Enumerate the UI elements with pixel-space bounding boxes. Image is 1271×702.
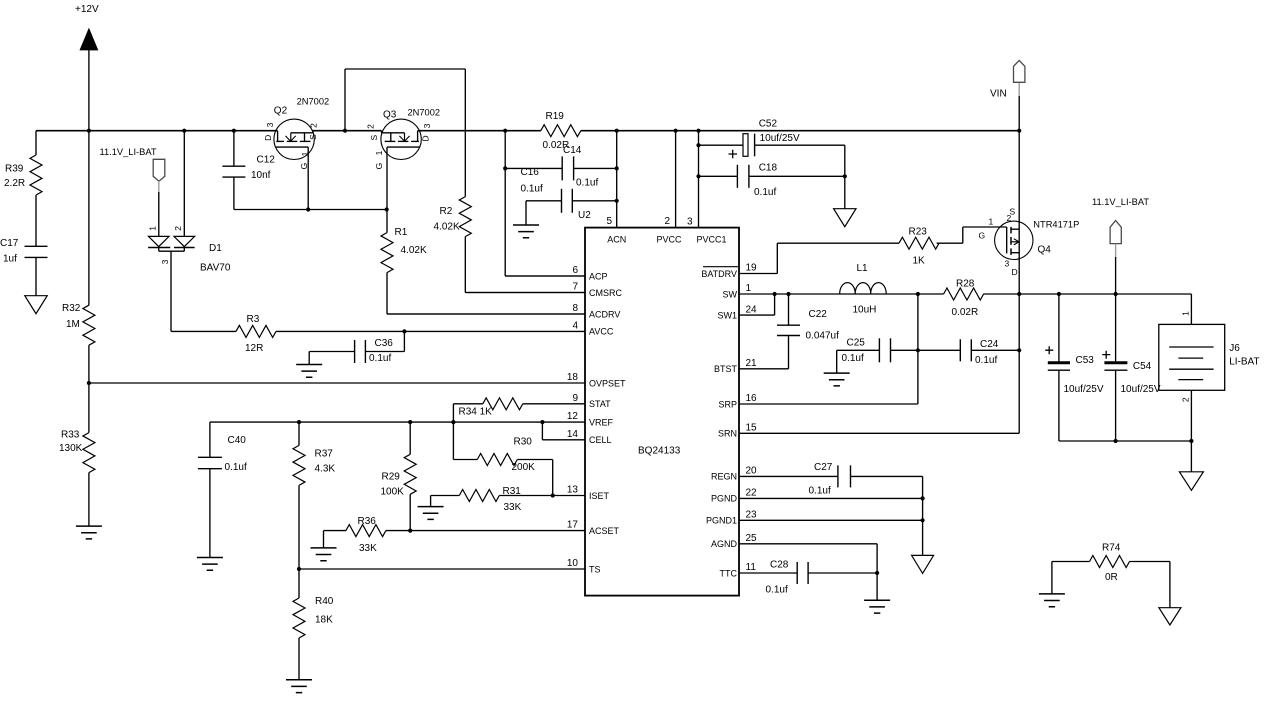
svg-text:C14: C14 bbox=[563, 145, 582, 156]
pin 2 PVCC bbox=[675, 131, 677, 228]
svg-text:2.2R: 2.2R bbox=[4, 178, 25, 189]
ground triangle J6 bbox=[1179, 472, 1203, 491]
diode D1 BAV70 bbox=[149, 236, 170, 246]
svg-text:ACSET: ACSET bbox=[589, 526, 620, 536]
wire bus R19 to VIN node bbox=[581, 130, 1019, 132]
svg-text:R2: R2 bbox=[440, 206, 453, 217]
resistor R33 130K bbox=[88, 383, 90, 433]
svg-text:1: 1 bbox=[148, 226, 158, 231]
wire R74 right to ground bbox=[1169, 562, 1171, 608]
pin 4 AVCC bbox=[584, 330, 586, 332]
svg-text:TTC: TTC bbox=[720, 568, 738, 578]
junction D1 pin2/bus bbox=[182, 129, 186, 133]
capacitor C17 1uf bbox=[25, 245, 48, 247]
wire C12 bottom to gates bbox=[234, 209, 387, 211]
svg-text:C24: C24 bbox=[980, 339, 999, 350]
svg-text:3: 3 bbox=[687, 217, 693, 228]
svg-text:R36: R36 bbox=[358, 516, 377, 527]
wire battery ground bus bbox=[1059, 440, 1192, 442]
pin 19 BATDRV bbox=[739, 273, 777, 275]
svg-text:NTR4171P: NTR4171P bbox=[1033, 220, 1079, 230]
ground triangle C52/C18 bbox=[834, 209, 856, 227]
svg-text:R39: R39 bbox=[5, 164, 24, 175]
svg-text:PGND1: PGND1 bbox=[706, 516, 737, 526]
svg-text:4.02K: 4.02K bbox=[434, 222, 460, 233]
junction TS/R37-R40 bbox=[297, 567, 301, 571]
pin 16 SRP bbox=[739, 403, 918, 405]
svg-text:14: 14 bbox=[567, 429, 579, 440]
transistor Q4 NTR4171P bbox=[995, 221, 1033, 259]
capacitor C25 0.1uf bbox=[837, 349, 880, 351]
wire R23 lead bbox=[777, 242, 899, 244]
svg-text:0.1uf: 0.1uf bbox=[369, 353, 391, 364]
svg-text:2: 2 bbox=[664, 216, 670, 227]
wire BATDRV riser bbox=[776, 243, 778, 273]
svg-text:PGND: PGND bbox=[711, 494, 738, 504]
svg-text:1M: 1M bbox=[66, 319, 80, 330]
junction bus/C14 branch bbox=[503, 129, 507, 133]
svg-text:5: 5 bbox=[606, 216, 612, 227]
junction AGND/C28 bbox=[875, 571, 879, 575]
wire AVCC line R3 to U2 bbox=[276, 330, 585, 332]
svg-text:11.1V_LI-BAT: 11.1V_LI-BAT bbox=[100, 147, 157, 157]
wire connector to C54 bbox=[1115, 244, 1117, 258]
svg-text:REGN: REGN bbox=[711, 472, 737, 482]
svg-text:0.1uf: 0.1uf bbox=[521, 184, 543, 195]
svg-text:12: 12 bbox=[567, 411, 579, 422]
svg-text:11: 11 bbox=[746, 562, 757, 573]
capacitor C28 0.1uf bbox=[796, 562, 798, 584]
svg-text:BQ24133: BQ24133 bbox=[638, 446, 681, 457]
ground below C40 bbox=[197, 558, 223, 571]
svg-text:4.3K: 4.3K bbox=[315, 464, 336, 475]
svg-text:C22: C22 bbox=[809, 309, 828, 320]
svg-text:0.047uf: 0.047uf bbox=[806, 331, 840, 342]
svg-text:10uf/25V: 10uf/25V bbox=[1064, 384, 1104, 395]
svg-text:D: D bbox=[1012, 267, 1018, 277]
svg-text:6: 6 bbox=[572, 265, 578, 276]
svg-text:VIN: VIN bbox=[990, 89, 1007, 100]
svg-text:R23: R23 bbox=[909, 227, 928, 238]
svg-text:20: 20 bbox=[746, 466, 758, 477]
svg-text:R40: R40 bbox=[315, 596, 334, 607]
svg-text:R30: R30 bbox=[514, 437, 533, 448]
svg-text:8: 8 bbox=[572, 303, 578, 314]
capacitor C54 10uf/25V bbox=[1104, 361, 1127, 364]
ground below C17 bbox=[25, 296, 47, 314]
pin 20 REGN bbox=[739, 475, 838, 477]
svg-text:33K: 33K bbox=[504, 502, 522, 513]
ground below R40 bbox=[286, 680, 312, 693]
pin 9 STAT bbox=[584, 403, 586, 405]
svg-text:11.1V_LI-BAT: 11.1V_LI-BAT bbox=[1092, 197, 1149, 207]
junction C14 right bbox=[615, 166, 619, 170]
pin 11 TTC bbox=[739, 572, 797, 574]
ground below R33 bbox=[76, 526, 102, 539]
wire +12V vertical to R32 bbox=[88, 50, 90, 305]
svg-text:R19: R19 bbox=[546, 111, 565, 122]
junction VREF/R34-R30 bbox=[451, 420, 455, 424]
junction VREF/CELL bbox=[540, 420, 544, 424]
wire top loop Q2S-Q3S to R2 bbox=[344, 69, 346, 131]
svg-text:1: 1 bbox=[746, 283, 752, 294]
svg-text:Q3: Q3 bbox=[383, 110, 397, 121]
junction bus/VIN vertical bbox=[1017, 129, 1021, 133]
wire CMSRC R2 to U2 bbox=[465, 292, 585, 294]
junction C18 right bbox=[843, 174, 847, 178]
svg-text:R1: R1 bbox=[395, 227, 408, 238]
svg-text:G: G bbox=[299, 163, 309, 170]
wire R74 left to ground bbox=[1051, 562, 1053, 594]
svg-text:9: 9 bbox=[572, 393, 578, 404]
svg-text:10: 10 bbox=[567, 558, 579, 569]
resistor R74 0R bbox=[1052, 561, 1090, 563]
svg-text:OVPSET: OVPSET bbox=[589, 378, 626, 388]
ground triangle REGN/PGND bbox=[912, 555, 934, 573]
svg-text:BAV70: BAV70 bbox=[200, 263, 231, 274]
svg-text:3: 3 bbox=[422, 123, 432, 128]
svg-text:SW: SW bbox=[723, 289, 738, 299]
junction Q3 gate / R1 bbox=[385, 207, 389, 211]
svg-text:G: G bbox=[374, 163, 384, 170]
svg-text:100K: 100K bbox=[381, 487, 405, 498]
svg-text:U2: U2 bbox=[578, 210, 591, 221]
svg-text:2: 2 bbox=[366, 124, 376, 129]
svg-text:BATDRV: BATDRV bbox=[701, 269, 737, 279]
junction PGND/riser bbox=[921, 496, 925, 500]
ground below C16 bbox=[513, 225, 539, 238]
junction C54/ground bus bbox=[1114, 439, 1118, 443]
svg-text:ISET: ISET bbox=[589, 491, 610, 501]
svg-text:ACN: ACN bbox=[607, 235, 626, 245]
svg-text:17: 17 bbox=[567, 520, 579, 531]
svg-text:C27: C27 bbox=[814, 462, 833, 473]
svg-text:C28: C28 bbox=[770, 560, 789, 571]
pin 7 CMSRC bbox=[465, 292, 585, 294]
pin 18 OVPSET bbox=[89, 382, 585, 384]
svg-text:BTST: BTST bbox=[714, 364, 738, 374]
pin 24 SW1 bbox=[739, 314, 775, 316]
svg-text:10nf: 10nf bbox=[251, 170, 271, 181]
wire bus Q3.D to R19 bbox=[418, 130, 541, 132]
inductor L1 10uH bbox=[840, 283, 887, 294]
svg-text:4.02K: 4.02K bbox=[401, 245, 427, 256]
capacitor C24 0.1uf bbox=[918, 349, 960, 351]
svg-text:0.1uf: 0.1uf bbox=[842, 353, 864, 364]
pin 21 BTST bbox=[739, 368, 789, 370]
svg-text:SRP: SRP bbox=[718, 399, 737, 409]
junction battery node/C53 bbox=[1057, 292, 1061, 296]
svg-text:AGND: AGND bbox=[711, 539, 738, 549]
svg-text:23: 23 bbox=[746, 510, 758, 521]
wire D1 pin2 to bus bbox=[183, 131, 185, 237]
wire D1 pin3 down bbox=[170, 251, 172, 331]
junction C12/bus bbox=[232, 129, 236, 133]
svg-text:18: 18 bbox=[567, 372, 579, 383]
junction battery node/Q4 drain bbox=[1017, 292, 1021, 296]
connector 11.1V_LI-BAT left bbox=[153, 159, 165, 181]
wire Q3 gate down to R1 bbox=[386, 147, 388, 209]
resistor R3 12R bbox=[171, 330, 236, 332]
svg-text:ACDRV: ACDRV bbox=[589, 309, 620, 319]
svg-text:R32: R32 bbox=[62, 303, 81, 314]
svg-text:21: 21 bbox=[746, 358, 758, 369]
junction PGND1/riser bbox=[921, 518, 925, 522]
svg-text:2: 2 bbox=[309, 123, 319, 128]
svg-text:VREF: VREF bbox=[589, 417, 614, 427]
resistor R28 0.02R bbox=[944, 288, 984, 300]
svg-text:18K: 18K bbox=[315, 615, 333, 626]
connector VIN bbox=[1014, 60, 1025, 82]
svg-text:CMSRC: CMSRC bbox=[589, 288, 622, 298]
pin 14 CELL bbox=[542, 439, 585, 441]
svg-text:10uf/25V: 10uf/25V bbox=[760, 133, 800, 144]
junction SW/SW1 bbox=[773, 292, 777, 296]
wire VIN vertical through Q4 to SRN bbox=[1018, 82, 1020, 97]
junction C14 left bbox=[503, 166, 507, 170]
svg-text:PVCC: PVCC bbox=[656, 235, 682, 245]
pin 10 TS bbox=[299, 568, 585, 570]
wire R28 to battery node bbox=[983, 293, 1191, 295]
pin 2 J6 bbox=[1190, 390, 1192, 472]
svg-text:SW1: SW1 bbox=[717, 310, 737, 320]
junction battery node/C54 bbox=[1114, 292, 1118, 296]
wire ACDRV R1 to U2 bbox=[387, 313, 585, 315]
svg-text:C17: C17 bbox=[0, 238, 19, 249]
svg-text:2: 2 bbox=[1007, 213, 1012, 223]
svg-text:R28: R28 bbox=[956, 279, 975, 290]
ground triangle R74 right bbox=[1159, 608, 1181, 625]
svg-text:ACP: ACP bbox=[589, 271, 608, 281]
junction VREF/R37 bbox=[297, 420, 301, 424]
ground below C36 bbox=[296, 365, 322, 378]
svg-text:R31: R31 bbox=[503, 486, 522, 497]
svg-text:0.1uf: 0.1uf bbox=[975, 355, 997, 366]
svg-text:Q4: Q4 bbox=[1038, 245, 1052, 256]
pin 15 SRN bbox=[739, 432, 1019, 434]
transistor Q2 2N7002 bbox=[274, 119, 314, 159]
svg-text:2: 2 bbox=[1180, 397, 1190, 402]
resistor R40 18K bbox=[293, 598, 305, 638]
pin 6 ACP bbox=[505, 275, 585, 277]
svg-text:R37: R37 bbox=[315, 449, 334, 460]
ground below R36 bbox=[311, 548, 337, 561]
capacitor C53 10uf/25V bbox=[1058, 294, 1060, 362]
capacitor C27 0.1uf bbox=[837, 465, 839, 487]
svg-text:+12V: +12V bbox=[75, 4, 99, 15]
pin 1 J6 bbox=[1190, 294, 1192, 324]
svg-text:0.1uf: 0.1uf bbox=[225, 462, 247, 473]
svg-text:C40: C40 bbox=[228, 435, 247, 446]
svg-text:SRN: SRN bbox=[718, 429, 737, 439]
wire SW line bbox=[739, 293, 944, 295]
svg-text:C25: C25 bbox=[847, 337, 866, 348]
junction SRP/C25-C24 bbox=[916, 348, 920, 352]
ground below R31 bbox=[418, 507, 444, 520]
resistor R34 1K bbox=[453, 403, 482, 405]
svg-text:10uH: 10uH bbox=[853, 305, 877, 316]
svg-text:PVCC1: PVCC1 bbox=[697, 235, 727, 245]
svg-text:1uf: 1uf bbox=[3, 254, 17, 265]
svg-text:0.1uf: 0.1uf bbox=[576, 178, 598, 189]
junction AVCC/C36 bbox=[402, 329, 406, 333]
svg-text:D: D bbox=[263, 135, 273, 141]
capacitor C40 0.1uf bbox=[209, 422, 211, 457]
svg-text:4: 4 bbox=[572, 320, 578, 331]
pin 3 PVCC1 bbox=[698, 131, 700, 228]
svg-text:D1: D1 bbox=[209, 243, 222, 254]
pin 17 ACSET bbox=[410, 530, 585, 532]
svg-text:200K: 200K bbox=[512, 462, 536, 473]
svg-text:R74: R74 bbox=[1102, 543, 1121, 554]
svg-text:LI-BAT: LI-BAT bbox=[1229, 357, 1259, 368]
capacitor C12 10nf bbox=[233, 131, 235, 167]
capacitor C14 0.1uf bbox=[505, 167, 562, 169]
svg-text:24: 24 bbox=[746, 304, 758, 315]
wire bus Q2.S to Q3.S bbox=[313, 130, 382, 132]
svg-text:0R: 0R bbox=[1105, 572, 1118, 583]
svg-text:CELL: CELL bbox=[589, 435, 612, 445]
svg-text:R3: R3 bbox=[247, 314, 260, 325]
capacitor C36 0.1uf bbox=[403, 331, 405, 351]
svg-text:0.1uf: 0.1uf bbox=[766, 585, 788, 596]
junction +12V/bus bbox=[87, 129, 91, 133]
transistor Q3 2N7002 bbox=[381, 119, 421, 159]
op-amp U2 BQ24133 IC body bbox=[585, 228, 739, 596]
svg-text:1: 1 bbox=[989, 217, 994, 227]
svg-text:1K: 1K bbox=[913, 256, 926, 267]
ground below C25 bbox=[824, 373, 850, 386]
svg-text:0.1uf: 0.1uf bbox=[809, 486, 831, 497]
resistor R37 4.3K bbox=[298, 422, 300, 445]
resistor R39 2.2R bbox=[35, 131, 37, 155]
junction C16 right bbox=[615, 199, 619, 203]
svg-text:R33: R33 bbox=[61, 430, 80, 441]
svg-text:12R: 12R bbox=[245, 343, 263, 354]
svg-text:S: S bbox=[369, 134, 379, 140]
svg-text:22: 22 bbox=[746, 488, 758, 499]
wire bus to ACP via C14 node bbox=[504, 131, 506, 276]
svg-text:25: 25 bbox=[746, 533, 758, 544]
svg-text:AVCC: AVCC bbox=[589, 327, 614, 337]
capacitor C18 0.1uf bbox=[699, 175, 738, 177]
wire top bus left bbox=[36, 130, 278, 132]
wire C52/C18 to ground bbox=[844, 145, 846, 209]
pin 25 AGND bbox=[739, 543, 877, 545]
junction J6 pin2/ground bus bbox=[1189, 439, 1193, 443]
resistor R19 0.02R bbox=[541, 125, 581, 137]
pin 23 PGND1 bbox=[739, 519, 923, 521]
svg-text:13: 13 bbox=[567, 485, 579, 496]
wire CELL drop from VREF bbox=[541, 422, 543, 440]
svg-text:3: 3 bbox=[160, 259, 170, 264]
svg-text:C54: C54 bbox=[1133, 361, 1152, 372]
svg-text:2N7002: 2N7002 bbox=[408, 108, 441, 118]
svg-text:L1: L1 bbox=[857, 263, 869, 274]
svg-text:Q2: Q2 bbox=[274, 106, 288, 117]
svg-text:2: 2 bbox=[173, 226, 183, 231]
wire SW1 riser bbox=[774, 294, 776, 315]
svg-text:16: 16 bbox=[746, 393, 758, 404]
svg-text:C16: C16 bbox=[521, 167, 540, 178]
svg-text:3: 3 bbox=[1005, 259, 1010, 269]
svg-text:0.1uf: 0.1uf bbox=[754, 187, 776, 198]
svg-text:7: 7 bbox=[572, 282, 578, 293]
junction Q2 gate bbox=[306, 207, 310, 211]
svg-text:15: 15 bbox=[746, 423, 758, 434]
junction VREF/R29 bbox=[408, 420, 412, 424]
svg-text:130K: 130K bbox=[59, 443, 83, 454]
wire R23 to Q4 gate bbox=[937, 242, 963, 244]
wire REGN ground riser bbox=[922, 476, 924, 555]
resistor R2 4.02K bbox=[459, 197, 471, 237]
wire SRP riser bbox=[917, 294, 919, 404]
junction loop/bus bbox=[343, 129, 347, 133]
svg-text:G: G bbox=[979, 231, 986, 241]
pin 5 ACN bbox=[616, 131, 618, 228]
pin 13 ISET bbox=[553, 495, 585, 497]
resistor R36 33K bbox=[324, 530, 346, 532]
svg-text:S: S bbox=[308, 134, 318, 140]
connector 11.1V_LI-BAT right bbox=[1110, 221, 1121, 244]
svg-text:R34 1K: R34 1K bbox=[459, 407, 493, 418]
pin 8 ACDRV bbox=[387, 313, 585, 315]
svg-text:J6: J6 bbox=[1229, 343, 1240, 354]
svg-text:10uf/25V: 10uf/25V bbox=[1121, 384, 1161, 395]
wire AGND drop bbox=[876, 544, 878, 573]
svg-text:R29: R29 bbox=[382, 472, 401, 483]
resistor R32 1M bbox=[83, 305, 95, 345]
junction OVPSET node bbox=[87, 381, 91, 385]
capacitor C16 0.1uf bbox=[526, 200, 562, 202]
wire connector to D1 pin1 bbox=[158, 181, 160, 193]
resistor R31 33K bbox=[431, 495, 460, 497]
svg-text:1: 1 bbox=[1180, 311, 1190, 316]
capacitor C52 10uf/25V bbox=[699, 144, 744, 146]
svg-text:D: D bbox=[421, 135, 431, 141]
svg-text:C18: C18 bbox=[759, 162, 778, 173]
resistor R29 100K bbox=[409, 422, 411, 454]
wire ACP to U2 bbox=[505, 275, 585, 277]
junction ISET/R30-R31 bbox=[551, 493, 555, 497]
pin 22 PGND bbox=[739, 497, 923, 499]
pin 12 VREF bbox=[210, 421, 585, 423]
svg-text:STAT: STAT bbox=[589, 399, 611, 409]
svg-text:C52: C52 bbox=[759, 118, 778, 129]
wire to ground bbox=[876, 573, 878, 600]
capacitor C22 0.047uf bbox=[788, 294, 790, 325]
resistor R30 200K bbox=[453, 459, 477, 461]
svg-text:33K: 33K bbox=[359, 543, 377, 554]
junction SW/C22 bbox=[786, 292, 790, 296]
svg-text:0.02R: 0.02R bbox=[952, 307, 979, 318]
junction SW/SRP riser bbox=[916, 292, 920, 296]
junction ACSET/R29-R36 bbox=[408, 529, 412, 533]
svg-text:19: 19 bbox=[746, 263, 758, 274]
svg-text:C12: C12 bbox=[257, 155, 276, 166]
svg-text:1: 1 bbox=[374, 150, 384, 155]
svg-text:2N7002: 2N7002 bbox=[297, 97, 330, 107]
svg-text:TS: TS bbox=[589, 564, 601, 574]
svg-text:C36: C36 bbox=[375, 338, 394, 349]
junction C24/Q4 drain line bbox=[1017, 348, 1021, 352]
svg-text:3: 3 bbox=[265, 122, 275, 127]
resistor R1 4.02K bbox=[386, 210, 388, 233]
resistor R23 1K bbox=[899, 237, 939, 249]
connector J6 LI-BAT battery bbox=[1159, 324, 1225, 390]
wire C16 to ground bbox=[525, 201, 527, 225]
ground below R74 left bbox=[1039, 594, 1065, 607]
